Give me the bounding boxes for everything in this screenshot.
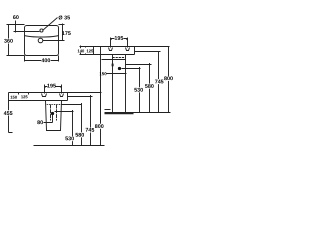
dim line 455: [9, 93, 13, 133]
label 530 semiped: [65, 136, 75, 142]
slab bottom line: [80, 54, 135, 56]
dim line 400: [25, 59, 59, 61]
dim line 60: [15, 21, 17, 33]
overflow hole: [38, 38, 43, 43]
plan view basin outline: [25, 26, 59, 56]
svg-text:745: 745: [155, 79, 164, 85]
semiped dim line 580: [81, 103, 83, 146]
back wall line: [100, 47, 102, 123]
semiped ext 530: [55, 111, 74, 113]
floor line pedestal view thin: [105, 112, 171, 114]
ext 580 right: [126, 64, 152, 66]
fixing lug right: [126, 48, 130, 51]
svg-text:195: 195: [47, 83, 56, 89]
svg-text:140: 140: [77, 48, 85, 53]
svg-text:400: 400: [41, 58, 50, 64]
dim line 530: [139, 67, 141, 113]
pedestal view slab top line and 800 ext: [80, 46, 170, 48]
label 455: [3, 110, 13, 117]
ext 400 left: [24, 56, 26, 62]
svg-text:580: 580: [75, 133, 84, 139]
ext 745 right: [135, 51, 161, 53]
semiped body: [46, 101, 62, 131]
semiped dim line 745: [90, 95, 92, 146]
semiped ext 580: [62, 104, 82, 106]
tap hole circle: [40, 29, 43, 32]
outlet dot pedestal view: [118, 67, 121, 70]
slab right edge: [134, 47, 136, 55]
semiped 195 ext lines: [45, 85, 62, 94]
svg-text:195: 195: [114, 36, 123, 42]
trap line: [102, 59, 126, 61]
label 580 semiped: [75, 132, 85, 138]
semiped dashed drain right: [56, 105, 58, 121]
svg-text:125: 125: [21, 94, 29, 99]
svg-text:530: 530: [134, 88, 143, 94]
pedestal right edge: [125, 55, 127, 113]
ext line 60 bottom to tap hole: [14, 31, 40, 33]
dim line 800: [168, 47, 170, 113]
fixing lug left: [109, 48, 113, 51]
svg-text:800: 800: [164, 76, 173, 82]
label 800 semiped: [95, 124, 105, 130]
semiped floor line: [34, 145, 105, 147]
semiped slab bottom: [9, 100, 68, 102]
semiped dim line 800: [100, 91, 102, 146]
fixing mark on pedestal edge: [112, 64, 114, 67]
ext line ring to 175 dim: [43, 40, 65, 42]
svg-text:125: 125: [86, 48, 94, 53]
ext 530 right: [122, 68, 141, 70]
195 ext lines up: [111, 38, 128, 48]
semiped dashed drain left: [50, 105, 52, 121]
svg-text:745: 745: [85, 128, 94, 134]
outlet dot semiped view: [51, 112, 54, 115]
ext line 60 top: [7, 24, 25, 26]
semiped slab right edge: [67, 93, 69, 101]
dim line 745: [158, 52, 160, 113]
svg-text:530: 530: [65, 136, 74, 142]
semiped dim line 530: [72, 110, 74, 146]
semiped dashed top: [46, 104, 62, 106]
slab step vertical: [93, 47, 95, 55]
ext 400 right: [58, 56, 60, 62]
svg-text:455: 455: [4, 111, 13, 117]
pedestal left edge: [112, 55, 114, 113]
svg-text:580: 580: [145, 84, 154, 90]
semiped ext 745: [68, 96, 93, 98]
dim line 360: [9, 25, 11, 56]
slab left edge: [80, 46, 82, 55]
plan ledge curve: [25, 36, 59, 38]
svg-text:150: 150: [10, 95, 18, 100]
label 530 pedestal: [134, 87, 144, 93]
semiped lug right: [60, 94, 64, 97]
svg-text:60: 60: [13, 15, 19, 21]
ext 360 bottom: [7, 55, 25, 57]
svg-text:800: 800: [95, 124, 104, 130]
195 dim line: [111, 39, 128, 40]
svg-text:150: 150: [99, 71, 107, 76]
dim line 175: [61, 24, 63, 41]
label 400: [41, 58, 51, 64]
semiped 195 dim line: [45, 87, 62, 88]
label 800 pedestal: [164, 76, 174, 82]
semiped slab top ticks: [19, 93, 29, 95]
svg-text:80: 80: [37, 120, 43, 126]
semiped view slab top line and 800 ext: [9, 92, 102, 94]
80 dim line: [44, 115, 53, 123]
label 360: [4, 39, 14, 45]
svg-text:Ø 35: Ø 35: [58, 15, 70, 21]
ext line rim top right: [59, 24, 65, 26]
dim line 580: [149, 63, 151, 113]
svg-text:175: 175: [62, 31, 71, 37]
label 745 pedestal: [155, 79, 165, 85]
slab divider ticks: [85, 47, 87, 55]
semiped lug left: [42, 94, 47, 97]
tap hole leader line: [43, 18, 58, 31]
floor line pedestal view thick: [105, 113, 134, 115]
drain pipe stub: [105, 109, 111, 111]
label 745 semiped: [85, 127, 95, 133]
label 580 pedestal: [145, 84, 155, 90]
pedestal dashed top line: [113, 57, 126, 59]
svg-text:360: 360: [4, 39, 13, 45]
150 leader line: [107, 73, 127, 75]
